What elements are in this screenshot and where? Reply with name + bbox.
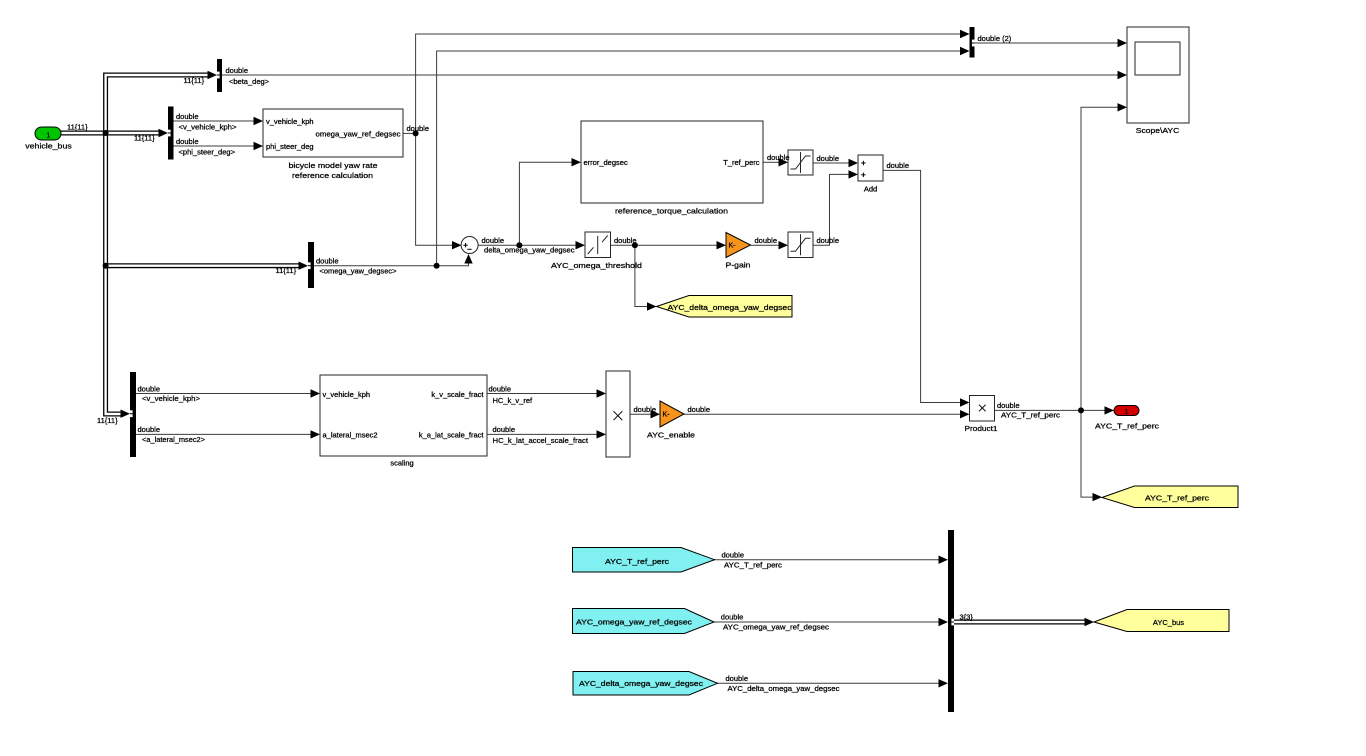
svg-text:K-: K- [663,412,671,419]
label under outport [1095,421,1159,430]
label double at selector4 out2 [138,425,161,434]
wire: vehicle_bus from inport to bus selector [61,131,160,136]
wire: scaling k_v_scale_fract to product [487,389,606,397]
product block (scaling factors) [606,371,630,457]
svg-text:a_lateral_msec2: a_lateral_msec2 [323,431,378,440]
junction threshold output / goto drop [632,242,638,248]
junction omega line / mux riser [434,263,440,269]
svg-text:double: double [726,674,749,683]
label double at bicycle output [407,124,430,133]
wire: vehicle_bus branch to omega_yaw selector [106,263,299,268]
arrowhead into AYC_bus goto [1085,618,1095,626]
label double at Product1 output [997,401,1020,410]
wire: saturation1 to Add input 1 [813,159,858,167]
wire: from tag AYC_T_ref_perc to bus creator [715,556,949,564]
svg-text:double: double [138,425,161,434]
label double at from tag 1 [722,550,745,559]
product1 block [970,396,995,422]
svg-text:<phi_steer_deg>: <phi_steer_deg> [179,148,236,157]
svg-text:1: 1 [1125,408,1129,415]
label <phi_steer_deg> [179,148,236,157]
label double at AYC_enable output [688,405,711,414]
label double at product output [634,405,657,414]
sum block (+-) [461,237,478,254]
label delta_omega_yaw_degsec [484,245,575,254]
wire: Add output down to Product1 input 1 [883,170,970,406]
svg-text:AYC_omega_yaw_ref_degsec: AYC_omega_yaw_ref_degsec [576,617,692,626]
svg-text:k_a_lat_scale_fract: k_a_lat_scale_fract [419,431,485,440]
label double at phi_steer_deg [176,137,199,146]
label Add [864,184,877,193]
svg-text:Add: Add [864,184,877,193]
svg-text:double: double [176,137,199,146]
label AYC_omega_yaw_ref_degsec under wire 2 [723,623,829,632]
wire: threshold output to P-gain [611,241,727,249]
bus selector 2 (v_vehicle,phi_steer) [168,107,174,160]
label AYC_T_ref_perc at Product1 output [1001,411,1060,420]
label HC_k_v_ref [493,396,534,405]
subsystem: bicycle model yaw rate reference calculation [263,109,403,157]
label AYC_delta_omega_yaw_degsec under wire 3 [728,684,840,693]
arrowhead into scaling selector [121,410,131,418]
svg-text:11{11}: 11{11} [134,133,155,142]
label scaling [390,458,413,467]
bus selector 4 (scaling inputs) [130,372,136,457]
junction sum output / error riser [516,242,522,248]
saturation block 1 [788,150,813,175]
wire: omega_yaw_ref to mux input 1 and down to sum [416,30,970,250]
svg-text:AYC_T_ref_perc: AYC_T_ref_perc [1095,421,1159,430]
arrowhead into beta_deg selector [208,71,218,79]
wire: from tag AYC_delta_omega_yaw_degsec to bus creator [718,679,949,687]
label double at Add output [887,161,910,170]
label double at from tag 3 [726,674,749,683]
gain P-gain (orange triangle) [726,233,751,258]
label double at k_v_scale_fract [489,384,512,393]
svg-text:scaling: scaling [390,458,413,467]
svg-text:P-gain: P-gain [726,261,751,270]
wire: saturation2 up to Add input 2 [813,170,858,245]
label 11{11} before selector 4 [97,416,118,425]
wire: reference_torque_calculation to saturation1 [763,158,788,166]
svg-text:v_vehicle_kph: v_vehicle_kph [266,117,314,126]
arrowhead into omega_yaw selector [299,262,309,270]
label double after P-gain [755,236,778,245]
junction on trunk at omega branch [103,263,109,269]
svg-text:double: double [407,124,430,133]
svg-text:11{11}: 11{11} [276,266,297,275]
goto tag AYC_bus (yellow) [1094,610,1229,632]
label 3{3} at bus creator output [960,612,974,621]
svg-text:<v_vehicle_kph>: <v_vehicle_kph> [142,394,201,403]
svg-text:AYC_delta_omega_yaw_degsec: AYC_delta_omega_yaw_degsec [668,303,792,312]
wire: product to AYC_enable gain [630,410,660,418]
goto tag AYC_T_ref_perc (yellow) [1102,486,1238,508]
svg-text:omega_yaw_ref_degsec: omega_yaw_ref_degsec [316,130,401,139]
label <omega_yaw_degsec> [320,266,398,275]
label Scope\AYC [1136,126,1180,135]
svg-text:delta_omega_yaw_degsec: delta_omega_yaw_degsec [484,245,575,254]
wire: AYC_enable to Product1 input 2 [684,410,970,418]
label reference_torque_calculation [615,206,728,215]
svg-text:double: double [817,154,840,163]
label double at k_a_lat [493,425,516,434]
svg-text:double: double [226,66,249,75]
svg-text:double: double [722,550,745,559]
wire: beta_deg to scope input 2 [222,71,1127,79]
svg-text:T_ref_perc: T_ref_perc [723,158,760,167]
label <v_vehicle_kph> [179,123,238,132]
svg-text:<beta_deg>: <beta_deg> [229,77,270,86]
label double at from tag 2 [721,613,744,622]
svg-text:double: double [767,153,790,162]
wire: vehicle_bus trunk (to beta_deg selector, down, to scaling selector) [106,75,209,414]
label double after saturation2 [817,236,840,245]
wire: selector to scaling a_lateral_msec2 [136,430,320,438]
label double at v_vehicle_kph [176,112,199,121]
svg-text:K-: K- [729,243,737,250]
svg-text:double: double [482,236,505,245]
label <v_vehicle_kph> selector4 [142,394,201,403]
subsystem: reference_torque_calculation [581,121,763,203]
svg-text:<v_vehicle_kph>: <v_vehicle_kph> [179,123,238,132]
svg-text:double: double [688,405,711,414]
label 11{11} before selector 1 [184,76,205,85]
label HC_k_lat_accel_scale_fract [493,436,589,445]
svg-text:double: double [176,112,199,121]
wire: Product1 output to outport [995,406,1115,414]
wire: branch up to error_degsec input [519,158,581,245]
svg-text:v_vehicle_kph: v_vehicle_kph [323,390,371,399]
from tag AYC_T_ref_perc (cyan) [573,548,715,573]
label double after threshold [614,236,637,245]
label double at omega_yaw_degsec [316,257,339,266]
subsystem: scaling [320,375,487,456]
add block [858,155,883,181]
arrowhead into v_vehicle/phi_steer selector [159,129,169,137]
label 11{11} at inport [67,123,88,132]
wire: scaling k_a_lat_scale_fract to product [487,430,606,438]
svg-text:Scope\AYC: Scope\AYC [1136,126,1180,135]
svg-text:double (2): double (2) [978,34,1012,43]
svg-text:k_v_scale_fract: k_v_scale_fract [431,390,484,399]
label double at selector4 out1 [138,384,161,393]
svg-text:double: double [493,425,516,434]
svg-text:11{11}: 11{11} [184,76,205,85]
wire: omega_yaw_degsec to sum bottom input [314,254,473,266]
junction at bicycle output [413,130,419,136]
saturation block 2 [788,232,813,258]
svg-text:AYC_delta_omega_yaw_degsec: AYC_delta_omega_yaw_degsec [579,679,703,688]
label <beta_deg> [229,77,270,86]
svg-text:double: double [634,405,657,414]
bus selector 1 (beta_deg) [217,59,222,92]
wire: omega_yaw_degsec up to mux input 2 [437,47,970,266]
svg-text:AYC_T_ref_perc: AYC_T_ref_perc [605,557,669,566]
svg-text:AYC_T_ref_perc: AYC_T_ref_perc [1001,411,1060,420]
svg-text:HC_k_v_ref: HC_k_v_ref [493,396,534,405]
label 11{11} before selector 2 [134,133,155,142]
svg-text:bicycle model yaw rate: bicycle model yaw rate [289,161,378,170]
label vehicle_bus [25,141,72,150]
label double after saturation1 [817,154,840,163]
svg-text:AYC_T_ref_perc: AYC_T_ref_perc [1145,494,1209,503]
wire: branch down to goto AYC_delta_omega_yaw_degsec [635,245,657,311]
junction on trunk at inport line [103,130,109,136]
svg-text:double: double [887,161,910,170]
label Product1 [965,424,998,433]
svg-text:AYC_enable: AYC_enable [647,431,695,440]
svg-text:reference_torque_calculation: reference_torque_calculation [615,206,728,215]
label <a_lateral_msec2> [142,435,206,444]
label AYC_omega_threshold [551,261,642,270]
svg-text:reference calculation: reference calculation [292,171,373,180]
from tag AYC_delta_omega_yaw_degsec (cyan) [573,672,718,696]
wire: selector to bicycle phi_steer_deg [174,142,264,150]
svg-text:Product1: Product1 [965,424,998,433]
svg-text:AYC_bus: AYC_bus [1153,618,1184,627]
svg-text:HC_k_lat_accel_scale_fract: HC_k_lat_accel_scale_fract [493,436,589,445]
scope block Scope\AYC [1127,27,1189,123]
label double (2) at mux output [978,34,1012,43]
wire: selector to bicycle v_vehicle_kph [174,117,264,125]
junction Product1 output [1078,407,1084,413]
label AYC_T_ref_perc under wire 1 [724,560,782,569]
dead zone block AYC_omega_threshold [585,232,611,258]
inport 1 vehicle_bus (green) [35,127,61,140]
svg-text:double: double [489,384,512,393]
gain AYC_enable (orange triangle) [660,401,684,427]
wire: from tag AYC_omega_yaw_ref_degsec to bus creator [714,618,948,626]
label AYC_enable [647,431,695,440]
svg-text:double: double [614,236,637,245]
goto tag AYC_delta_omega_yaw_degsec (yellow) [657,296,793,318]
svg-text:double: double [817,236,840,245]
svg-text:AYC_delta_omega_yaw_degsec: AYC_delta_omega_yaw_degsec [728,684,840,693]
wire: P-gain to saturation [751,241,789,249]
label double after ref torque [767,153,790,162]
svg-text:phi_steer_deg: phi_steer_deg [266,142,314,151]
wire: sum output to AYC_omega_threshold [478,241,585,249]
wire: selector to scaling v_vehicle_kph [136,389,320,397]
svg-text:<a_lateral_msec2>: <a_lateral_msec2> [142,435,206,444]
wire: branch up to scope input 3 and down to goto [1081,103,1127,501]
bus selector 3 (omega_yaw_degsec) [308,242,314,288]
wire: bicycle model output to junction [403,132,416,134]
label double at sum output [482,236,505,245]
svg-text:double: double [755,236,778,245]
svg-text:double: double [997,401,1020,410]
svg-text:vehicle_bus: vehicle_bus [25,141,72,150]
svg-text:double: double [138,384,161,393]
label bicycle model [289,161,378,180]
svg-text:double: double [316,257,339,266]
svg-text:AYC_omega_threshold: AYC_omega_threshold [551,261,642,270]
label 11{11} before selector 3 [276,266,297,275]
label P-gain [726,261,751,270]
label double at beta_deg [226,66,249,75]
svg-text:error_degsec: error_degsec [584,158,628,167]
svg-text:AYC_omega_yaw_ref_degsec: AYC_omega_yaw_ref_degsec [723,623,829,632]
svg-text:11{11}: 11{11} [67,123,88,132]
outport 1 AYC_T_ref_perc (red) [1114,406,1139,416]
wire: mux output to scope input 1 [975,39,1128,47]
mux (double (2)) [970,27,975,58]
bus creator (AYC_bus) [948,530,954,712]
svg-text:double: double [721,613,744,622]
svg-text:<omega_yaw_degsec>: <omega_yaw_degsec> [320,266,398,275]
svg-text:3{3}: 3{3} [960,612,974,621]
svg-text:AYC_T_ref_perc: AYC_T_ref_perc [724,560,782,569]
svg-text:11{11}: 11{11} [97,416,118,425]
from tag AYC_omega_yaw_ref_degsec (cyan) [573,609,715,634]
wire: AYC_bus from bus creator to goto tag [954,620,1086,625]
svg-text:1: 1 [46,132,50,139]
